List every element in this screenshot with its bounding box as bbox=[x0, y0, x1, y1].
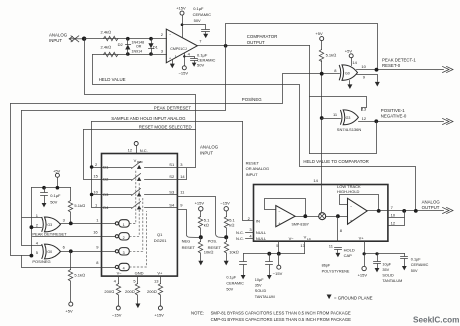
svg-text:5.1kΩ: 5.1kΩ bbox=[74, 272, 85, 277]
label ANALOG INPUT (mid) bbox=[200, 145, 219, 156]
svg-text:0.1µF: 0.1µF bbox=[411, 258, 421, 262]
svg-text:SAMPLE AND HOLD INPUT ANALOG: SAMPLE AND HOLD INPUT ANALOG bbox=[111, 116, 186, 121]
svg-text:RESET: RESET bbox=[246, 161, 260, 166]
wire: hold cap node down bbox=[337, 217, 339, 242]
label POSITIVE-1 NEGATIVE-0 bbox=[381, 108, 407, 118]
+15V terminal bbox=[176, 6, 186, 38]
wire: peak det/reset line to left bbox=[22, 46, 226, 111]
wire: analog input routing to S1 bbox=[85, 39, 196, 168]
label VREF bbox=[134, 158, 144, 164]
svg-text:−15V: −15V bbox=[273, 271, 283, 276]
svg-text:+15V: +15V bbox=[176, 6, 186, 11]
svg-text:S3: S3 bbox=[169, 190, 175, 195]
+15V terminal (V+) bbox=[358, 254, 368, 278]
label Q1 DG201 bbox=[154, 232, 167, 243]
pin 3 NULL N.C. bbox=[236, 227, 267, 235]
svg-text:10µF: 10µF bbox=[382, 262, 391, 266]
label POS. RESET bbox=[208, 239, 222, 251]
svg-text:N.C.: N.C. bbox=[140, 148, 148, 153]
terminal pin 12 N.C. bbox=[128, 142, 148, 154]
svg-text:D1: D1 bbox=[153, 44, 159, 49]
svg-text:V−: V− bbox=[117, 270, 123, 275]
XOR gate G3 (left, peak det/reset) bbox=[36, 213, 66, 232]
svg-text:0.1µF: 0.1µF bbox=[226, 276, 236, 280]
switch S2 row (D2) bbox=[93, 174, 185, 182]
op-amp U1 CMP01CJ comparator bbox=[161, 29, 203, 63]
+15V terminal (DG201) bbox=[154, 306, 164, 318]
XOR gate G0 (top right) bbox=[334, 60, 366, 81]
switch driver 2 bbox=[93, 183, 139, 241]
+5V terminal (top right rail) bbox=[315, 31, 323, 41]
labels V- VLC V+ at block bottom bbox=[289, 235, 365, 242]
wire: amp1 output to multiplier bbox=[296, 216, 319, 218]
wire: input top rail bbox=[85, 38, 167, 40]
svg-text:CERAMIC: CERAMIC bbox=[411, 263, 429, 267]
capacitor 10uF tantalum (V+) bbox=[374, 254, 403, 284]
svg-text:−15V: −15V bbox=[179, 71, 189, 76]
switch S3 row (D3) bbox=[93, 189, 185, 197]
svg-text:−: − bbox=[169, 33, 171, 37]
svg-text:+: + bbox=[169, 56, 171, 60]
wire: pos/neg long line bbox=[11, 74, 340, 104]
svg-text:V+: V+ bbox=[359, 235, 365, 240]
node: analog input junction bbox=[82, 37, 86, 41]
svg-text:ANALOG: ANALOG bbox=[200, 145, 219, 150]
svg-text:RESET: RESET bbox=[182, 245, 196, 250]
op-amp A2 (SMP output amp) bbox=[340, 195, 379, 225]
wire: pin 14 control into switch bbox=[321, 185, 323, 213]
svg-text:14: 14 bbox=[180, 174, 185, 179]
svg-text:2.4kΩ: 2.4kΩ bbox=[101, 44, 112, 49]
pin 5 V- stub to minus bus bbox=[276, 242, 279, 254]
resistor 200 ohm (GND) bbox=[125, 277, 140, 304]
wire: reset mode drop to D2 bbox=[84, 130, 102, 180]
node: rail to gate2 input 11 bbox=[320, 116, 324, 120]
svg-text:G3: G3 bbox=[346, 116, 351, 120]
svg-text:+5V: +5V bbox=[53, 169, 61, 174]
svg-text:CMP-01 BYPASS CAPACITORS LESS: CMP-01 BYPASS CAPACITORS LESS THAN 0.5 I… bbox=[211, 317, 352, 322]
svg-text:10: 10 bbox=[391, 212, 396, 217]
IC U2 SMP-81 sample and hold block bbox=[254, 185, 388, 242]
svg-text:10kΩ: 10kΩ bbox=[229, 250, 239, 255]
svg-text:TANTALUM: TANTALUM bbox=[382, 279, 402, 283]
wire: peak det/reset to DG201 pin 16 bbox=[33, 236, 102, 238]
wire: gate G0 output to DG201 pin 9 bbox=[61, 251, 102, 253]
ground (DG201 GND pin) bbox=[135, 304, 140, 309]
svg-text:−15V: −15V bbox=[220, 200, 230, 205]
svg-text:INPUT: INPUT bbox=[49, 38, 62, 43]
svg-text:86pF: 86pF bbox=[322, 263, 331, 267]
svg-text:RESET: RESET bbox=[208, 245, 222, 250]
svg-text:200Ω: 200Ω bbox=[104, 289, 114, 294]
node: rail to gate1 input 8 bbox=[320, 72, 324, 76]
svg-text:Q1: Q1 bbox=[157, 232, 163, 237]
label 1N4148 OR 1N914 bbox=[132, 40, 145, 53]
svg-text:5.1kΩ: 5.1kΩ bbox=[74, 203, 85, 208]
svg-text:G0: G0 bbox=[345, 71, 350, 75]
diode D2 bbox=[118, 39, 131, 55]
svg-text:HOLD: HOLD bbox=[344, 247, 355, 252]
svg-text:N.C.: N.C. bbox=[236, 236, 244, 241]
switch driver 4 bbox=[96, 211, 146, 271]
wire: comparator output bbox=[198, 45, 310, 47]
svg-text:NEGATIVE-0: NEGATIVE-0 bbox=[381, 114, 407, 119]
svg-text:+: + bbox=[278, 222, 280, 226]
svg-text:35V: 35V bbox=[382, 268, 389, 272]
+5V terminal for gate pin 14 bbox=[345, 48, 353, 65]
svg-text:SN74LS136N: SN74LS136N bbox=[337, 127, 362, 132]
svg-text:INPUT: INPUT bbox=[246, 172, 259, 177]
pin 13 VLC stub bbox=[300, 242, 305, 254]
label RESET OR ANALOG INPUT bbox=[246, 161, 270, 177]
resistor 10k (pos reset) bbox=[224, 238, 238, 261]
+5V terminal (left bus) bbox=[53, 169, 61, 188]
svg-text:14: 14 bbox=[313, 178, 318, 183]
svg-text:OR: OR bbox=[136, 45, 142, 49]
svg-text:10µF: 10µF bbox=[255, 278, 264, 282]
output arrow ANALOG OUTPUT bbox=[443, 208, 454, 214]
svg-text:1N914: 1N914 bbox=[132, 49, 143, 53]
-15V terminal (V-) bbox=[273, 254, 283, 277]
svg-text:50V: 50V bbox=[50, 199, 57, 204]
svg-text:COMPARATOR: COMPARATOR bbox=[247, 34, 277, 39]
svg-text:CERAMIC: CERAMIC bbox=[226, 282, 244, 286]
pin stubs 4 5 13 with 200 ohm resistors bbox=[114, 279, 160, 284]
svg-text:OR ANALOG: OR ANALOG bbox=[246, 166, 270, 171]
pins 10 and 12 tied to output bbox=[389, 211, 405, 226]
wire: +5V pullup rail down to SMP pin 14 bbox=[321, 41, 323, 185]
wire: gate2 output down and to comparator drop bbox=[310, 122, 377, 154]
resistor 5.1k pullup (gate G3 output) bbox=[68, 188, 85, 224]
svg-text:+: + bbox=[350, 219, 352, 223]
wire: peak-det feedback top loop bbox=[226, 24, 378, 70]
svg-text:50V: 50V bbox=[194, 18, 201, 23]
wire: +5V bus bbox=[32, 187, 71, 189]
svg-text:2.4kΩ: 2.4kΩ bbox=[101, 30, 112, 35]
svg-text:10: 10 bbox=[93, 189, 98, 194]
capacitor 0.1uF ceramic (bottom, on -15V) bbox=[185, 53, 216, 68]
wire: gate1 pin 9 to ground bbox=[357, 75, 380, 87]
svg-text:G0: G0 bbox=[47, 250, 52, 254]
node: POS RESET junction bbox=[224, 235, 228, 239]
svg-text:POS.: POS. bbox=[208, 239, 218, 244]
svg-text:kΩ: kΩ bbox=[229, 223, 234, 228]
resistor 10k (neg reset) bbox=[198, 238, 213, 261]
wire: +5V bus drop to gate inputs bbox=[32, 188, 42, 256]
input jack symbol bbox=[69, 36, 84, 42]
wire: gate1 output to PEAK DETECT arrow bbox=[357, 69, 444, 71]
XOR gate G0 (left, pos/neg) bbox=[36, 240, 66, 259]
svg-text:+15V: +15V bbox=[195, 200, 205, 205]
wire: driver pin 8 feed bbox=[22, 256, 102, 268]
label ANALOG INPUT (top left) bbox=[49, 33, 68, 43]
svg-text:14: 14 bbox=[352, 60, 357, 65]
svg-text:13: 13 bbox=[362, 106, 367, 111]
+5V terminal (bottom left) bbox=[65, 302, 73, 314]
svg-text:12: 12 bbox=[362, 116, 367, 121]
pin 4 NULL N.C. bbox=[236, 233, 267, 241]
svg-text:+5V: +5V bbox=[345, 48, 353, 53]
svg-text:IN: IN bbox=[256, 219, 260, 224]
svg-text:4: 4 bbox=[123, 267, 125, 271]
resistor 200 ohm (V+) bbox=[147, 277, 163, 307]
svg-text:PEAK DET/RESET: PEAK DET/RESET bbox=[154, 105, 192, 110]
svg-text:GND: GND bbox=[135, 270, 144, 275]
svg-text:N.C.: N.C. bbox=[236, 230, 244, 235]
svg-text:PEAK DET/RESET: PEAK DET/RESET bbox=[32, 232, 67, 237]
svg-text:SMP-81BY: SMP-81BY bbox=[292, 223, 310, 227]
resistor 5.1k (neg reset) bbox=[198, 217, 210, 238]
wire: pos/neg left drop to gate input 5 bbox=[11, 104, 32, 256]
svg-text:35V: 35V bbox=[255, 284, 262, 288]
-15V terminal (DG201) bbox=[112, 306, 122, 318]
svg-text:SOLID: SOLID bbox=[382, 274, 394, 278]
capacitor 0.1uF ceramic (top) bbox=[183, 6, 212, 38]
IC Q1 DG201 quad switch block bbox=[102, 154, 178, 277]
pin 2 IN bbox=[248, 216, 260, 224]
node dots at diode rails bbox=[126, 37, 130, 41]
svg-text:−: − bbox=[350, 205, 352, 209]
svg-text:NOTE:: NOTE: bbox=[191, 311, 204, 316]
legend ground plane bbox=[327, 295, 373, 301]
svg-text:5.1kΩ: 5.1kΩ bbox=[326, 52, 337, 57]
op-amp A1 (SMP input amp) bbox=[265, 199, 306, 227]
svg-text:TANTALUM: TANTALUM bbox=[255, 295, 275, 299]
svg-text:2: 2 bbox=[123, 236, 125, 240]
ground (pos reset) bbox=[224, 261, 229, 266]
wire: S2 jog joining analog line bbox=[178, 169, 187, 180]
capacitor 0.1uF ceramic (V+) bbox=[401, 254, 429, 273]
wire: S4 to NEG reset junction bbox=[178, 210, 201, 238]
svg-text:50V: 50V bbox=[411, 269, 418, 273]
svg-text:12: 12 bbox=[128, 148, 133, 153]
labels V- GND V+ inside bottom bbox=[117, 270, 163, 275]
svg-text:D4: D4 bbox=[103, 205, 109, 210]
wire: branch to gate pin 13 bbox=[310, 97, 367, 111]
wire: A2 output to analog output bbox=[368, 210, 444, 212]
label ANALOG OUTPUT bbox=[422, 200, 441, 210]
svg-text:3: 3 bbox=[123, 251, 125, 255]
wire: comparator vertical drop bbox=[309, 46, 311, 154]
svg-text:kΩ: kΩ bbox=[204, 223, 209, 228]
label PEAK DETECT-1 RESET-0 bbox=[382, 58, 416, 68]
svg-text:OUTPUT: OUTPUT bbox=[422, 205, 440, 210]
diode D1 bbox=[148, 39, 158, 55]
svg-text:POLYSTYRENE: POLYSTYRENE bbox=[322, 269, 350, 273]
svg-text:POS/NEG: POS/NEG bbox=[242, 97, 262, 102]
svg-text:HIGH-HOLD: HIGH-HOLD bbox=[337, 189, 360, 194]
wire: V- bus bbox=[244, 253, 305, 255]
switch driver 1 bbox=[96, 171, 136, 228]
output arrow PEAK DETECT bbox=[443, 67, 454, 73]
svg-text:50V: 50V bbox=[226, 288, 233, 292]
svg-text:= GROUND PLANE: = GROUND PLANE bbox=[334, 295, 373, 300]
capacitor 0.1uF ceramic (V-) bbox=[226, 254, 246, 292]
wire: peak det/reset left drop to gate input 1 and 2 bbox=[22, 111, 42, 246]
svg-text:G3: G3 bbox=[47, 223, 52, 227]
svg-text:V−: V− bbox=[289, 236, 295, 241]
svg-text:V+: V+ bbox=[157, 270, 163, 275]
wire: multiplier to op-amp A2 bbox=[326, 216, 348, 218]
svg-text:−15V: −15V bbox=[112, 313, 122, 318]
XOR gate G3 (right, positive/negative) bbox=[333, 106, 367, 124]
svg-text:HELD VALUE: HELD VALUE bbox=[99, 77, 126, 82]
svg-text:RESET-0: RESET-0 bbox=[382, 63, 401, 68]
resistor 2.4k (top) bbox=[101, 30, 119, 41]
svg-text:D1: D1 bbox=[103, 164, 109, 169]
pin 11 hold cap bbox=[329, 243, 355, 257]
svg-text:S4: S4 bbox=[169, 203, 175, 208]
+15V terminal (neg reset pot) bbox=[195, 200, 205, 216]
resistor 5.1k (pos reset) bbox=[224, 217, 235, 238]
wire: held value bottom rail bbox=[93, 54, 167, 56]
multiplier/switch symbol X bbox=[319, 213, 326, 220]
svg-text:200Ω: 200Ω bbox=[125, 289, 135, 294]
svg-text:SeekIC.com: SeekIC.com bbox=[413, 316, 459, 325]
label NEG RESET bbox=[182, 239, 196, 251]
svg-text:RESET MODE SELECTED: RESET MODE SELECTED bbox=[139, 124, 192, 129]
note text bbox=[191, 311, 351, 322]
svg-text:50V: 50V bbox=[197, 63, 204, 68]
svg-text:10kΩ: 10kΩ bbox=[204, 250, 214, 255]
resistor 5.1k pullup (gate G0 output) bbox=[68, 252, 85, 303]
label COMPARATOR OUTPUT bbox=[247, 34, 277, 45]
switch S4 row (D4) bbox=[95, 202, 183, 210]
wire: reset mode selected line bbox=[84, 129, 196, 131]
svg-text:D2: D2 bbox=[103, 176, 109, 181]
output arrow POSITIVE/NEGATIVE bbox=[443, 119, 454, 125]
pin V+ stub and bus bbox=[363, 242, 405, 256]
node: V+ junction bbox=[181, 23, 184, 26]
svg-text:0.1µF: 0.1µF bbox=[50, 193, 61, 198]
svg-text:15: 15 bbox=[93, 174, 98, 179]
capacitor 10uF tantalum (V-) bbox=[255, 254, 275, 299]
resistor 200 ohm (V-) bbox=[104, 277, 120, 307]
svg-text:NULL: NULL bbox=[256, 236, 267, 241]
label LOW TRACK HIGH-HOLD bbox=[337, 184, 361, 194]
wire: sample line drop to D1 D3 D4 bbox=[92, 122, 102, 208]
wire: sample line down to SMP pin 2 bbox=[243, 122, 254, 221]
ground under gate1 bbox=[347, 81, 352, 90]
svg-text:CMP01CJ: CMP01CJ bbox=[170, 47, 187, 51]
wire: S3 to POS reset junction bbox=[178, 197, 227, 238]
svg-text:CAP: CAP bbox=[344, 253, 353, 258]
svg-text:CERAMIC: CERAMIC bbox=[193, 12, 212, 17]
switch driver 3 bbox=[96, 198, 143, 255]
ground (neg reset) bbox=[198, 261, 203, 266]
wire: gate2 output to POSITIVE/NEGATIVE arrow bbox=[359, 121, 444, 123]
svg-text:SOLID: SOLID bbox=[255, 289, 267, 293]
svg-text:INPUT: INPUT bbox=[200, 151, 213, 156]
ground pin 1 of comparator bbox=[170, 60, 175, 69]
svg-text:D3: D3 bbox=[103, 192, 109, 197]
svg-text:10: 10 bbox=[361, 64, 366, 69]
-15V terminal (pos reset pot) bbox=[220, 200, 230, 216]
svg-text:POS/NEG: POS/NEG bbox=[32, 259, 50, 264]
wire: rail junction to gate2 input 11 bbox=[322, 118, 341, 120]
svg-text:D2: D2 bbox=[118, 42, 124, 47]
svg-text:SMP-81 BYPASS CAPACITORS LESS: SMP-81 BYPASS CAPACITORS LESS THAN 0.5 I… bbox=[211, 311, 351, 316]
wire: held value feedback (output to comparator) bbox=[93, 55, 416, 211]
node: NEG RESET junction bbox=[199, 235, 203, 239]
resistor 2.4k (bottom) bbox=[101, 44, 119, 56]
svg-text:+15V: +15V bbox=[358, 273, 368, 278]
svg-text:+5V: +5V bbox=[65, 309, 73, 314]
svg-text:S2: S2 bbox=[169, 174, 175, 179]
svg-text:13: 13 bbox=[154, 279, 159, 284]
capacitor 0.1uF 50V on bus bbox=[41, 188, 62, 208]
svg-text:12: 12 bbox=[391, 221, 396, 226]
svg-text:+5V: +5V bbox=[315, 31, 323, 36]
svg-text:NEG: NEG bbox=[182, 239, 191, 244]
-15V terminal pin 4 bbox=[179, 54, 189, 76]
svg-text:DG201: DG201 bbox=[154, 238, 167, 243]
svg-text:+15V: +15V bbox=[154, 313, 164, 318]
svg-text:0.1µF: 0.1µF bbox=[193, 6, 204, 11]
svg-text:200Ω: 200Ω bbox=[147, 289, 157, 294]
svg-text:HELD VALUE TO COMPARATOR: HELD VALUE TO COMPARATOR bbox=[303, 159, 368, 164]
svg-text:OUTPUT: OUTPUT bbox=[247, 40, 265, 45]
wire: sample and hold input analog line bbox=[92, 121, 243, 123]
switch S1 row (D1) bbox=[95, 162, 183, 170]
svg-text:16: 16 bbox=[93, 230, 98, 235]
svg-text:S1: S1 bbox=[169, 162, 175, 167]
svg-text:NULL: NULL bbox=[256, 230, 267, 235]
svg-text:−: − bbox=[278, 210, 280, 214]
svg-text:1: 1 bbox=[123, 223, 125, 227]
resistor 5.1k (rail pullup) bbox=[319, 50, 336, 62]
svg-text:POSITIVE-1: POSITIVE-1 bbox=[381, 108, 405, 113]
label 86pF POLYSTYRENE bbox=[322, 263, 350, 273]
wire: gate G3 output to DG201 pin 1 bbox=[61, 223, 102, 225]
